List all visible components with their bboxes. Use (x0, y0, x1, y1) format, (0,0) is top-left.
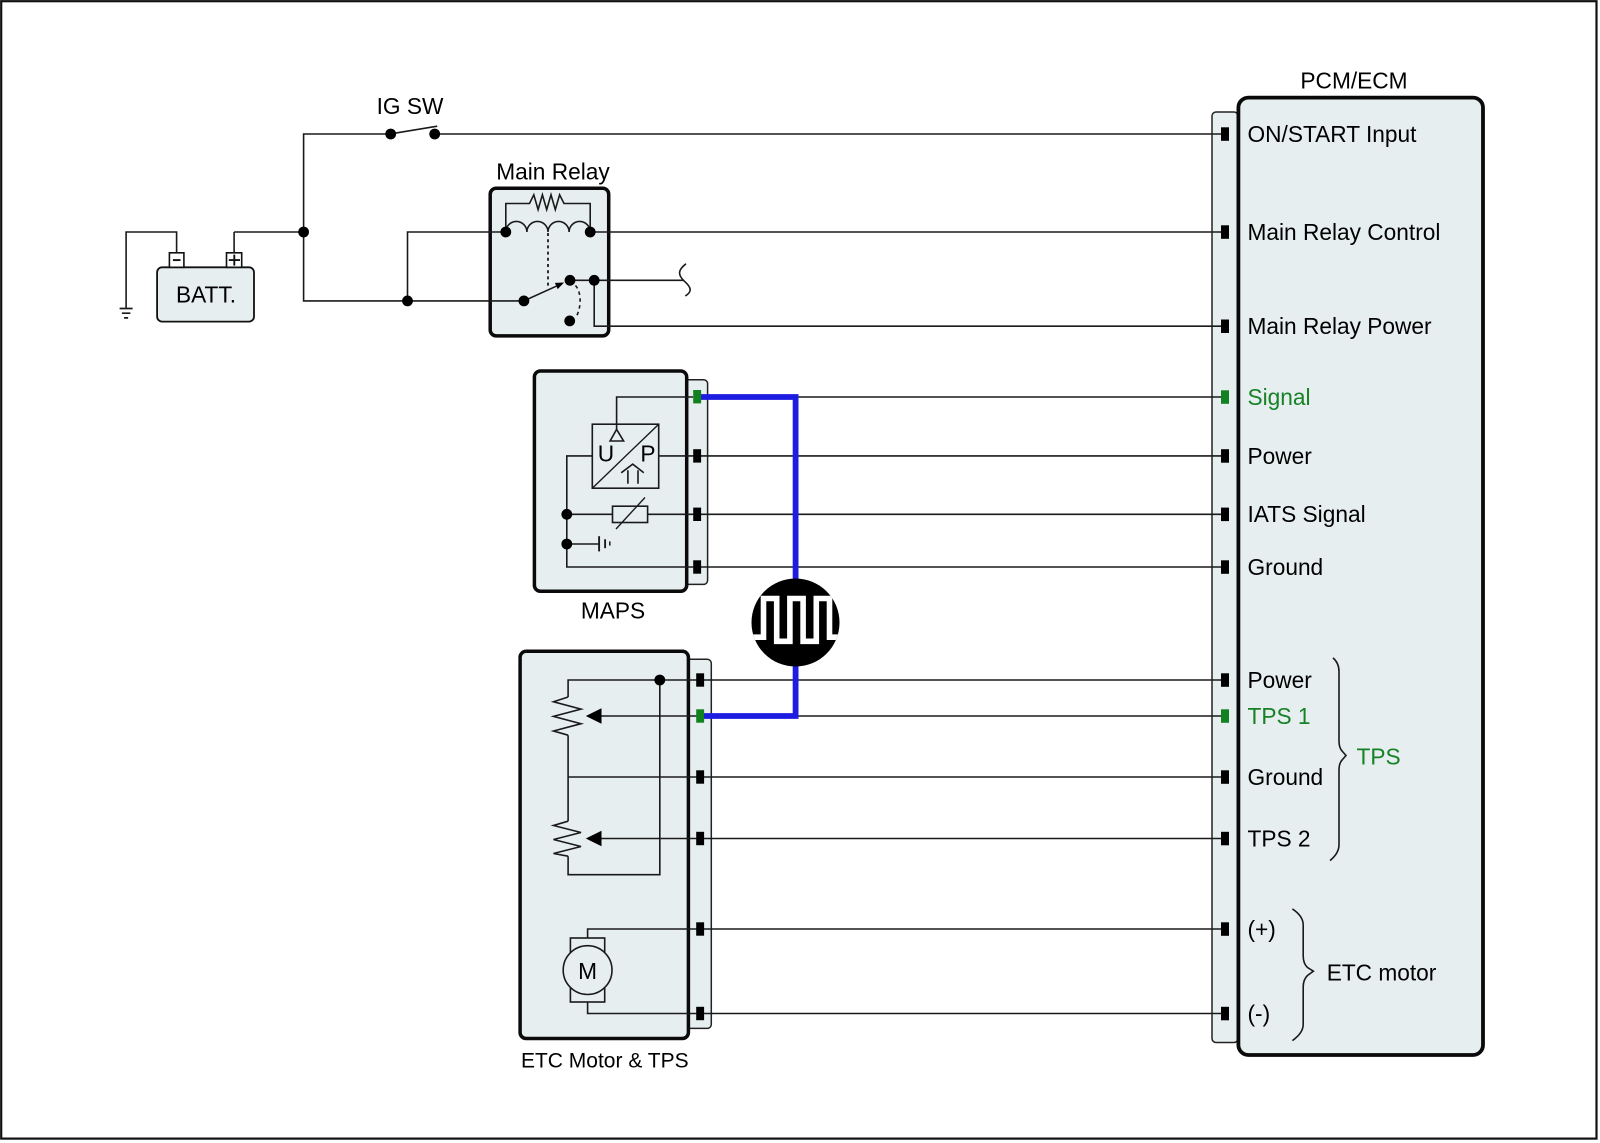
pin MAPS IATS (693, 508, 701, 521)
svg-text:Power: Power (1248, 667, 1313, 693)
MAPS signal internal wire (617, 397, 694, 429)
svg-text:PCM/ECM: PCM/ECM (1300, 67, 1407, 93)
svg-text:(+): (+) (1248, 916, 1276, 942)
svg-text:(-): (-) (1248, 1000, 1271, 1026)
pin PCM motor plus (1221, 922, 1229, 936)
pin MAPS Ground (693, 560, 701, 573)
ETC Motor & TPS box (520, 651, 688, 1038)
wire junction to battery positive (234, 232, 304, 253)
battery BATT. body (157, 267, 254, 321)
TPS resistor 2 (554, 821, 582, 856)
pin PCM Power 2 (1221, 673, 1229, 687)
wire relay coil to PCM Main Relay Control (590, 231, 1221, 233)
PCM/ECM box U1 (1238, 98, 1483, 1055)
node relay NC contact (564, 316, 575, 327)
MAPS U/P transducer (592, 424, 658, 488)
pin MAPS Signal (693, 390, 701, 403)
node ETC power junction (654, 675, 665, 686)
battery negative terminal (169, 253, 184, 267)
svg-text:IATS Signal: IATS Signal (1248, 501, 1366, 527)
pin PCM Power (1221, 449, 1229, 463)
TPS mid rail (568, 735, 1221, 821)
TPS resistor 1 (554, 697, 582, 735)
wire thermistor to PCM IATS Signal (648, 513, 1221, 515)
svg-text:Main Relay Power: Main Relay Power (1248, 313, 1433, 339)
node MAPS thermistor tap (561, 509, 572, 520)
MAPS capacitor (567, 543, 599, 545)
motor M (563, 946, 612, 995)
node IG SW left (385, 129, 396, 140)
node relay coil left (500, 227, 511, 238)
relay dashed throw arc (576, 286, 581, 317)
pin PCM ON/START (1221, 127, 1229, 141)
svg-text:TPS 1: TPS 1 (1248, 703, 1311, 729)
wire IG SW to PCM ON/START (435, 133, 1221, 135)
Main Relay box K1 (490, 188, 609, 336)
pin MAPS Power (693, 449, 701, 462)
TPS wiper arrow 1 (601, 715, 1221, 717)
ground symbol (120, 309, 133, 318)
pin ETC motor minus (696, 1007, 704, 1020)
relay switch blade (524, 286, 556, 301)
svg-text:P: P (640, 440, 655, 466)
wire branch up to relay coil (408, 232, 506, 301)
svg-text:IG SW: IG SW (377, 93, 444, 119)
wire junction down to relay common (304, 232, 524, 301)
MAPS connector strip (680, 380, 708, 585)
svg-text:U: U (598, 440, 614, 466)
pin PCM Ground 2 (1221, 770, 1229, 784)
pin PCM IATS Signal (1221, 508, 1229, 521)
motor M brushes (570, 938, 604, 1002)
svg-text:M: M (578, 958, 597, 984)
pin PCM TPS 1 (1221, 709, 1229, 723)
node MAPS capacitor tap (561, 539, 572, 550)
node IG SW right (429, 129, 440, 140)
ETC connector strip (684, 659, 711, 1028)
TPS resistor 2 return loop (568, 680, 660, 875)
pin PCM Ground (1221, 560, 1229, 574)
svg-text:TPS 2: TPS 2 (1248, 825, 1311, 851)
node relay branch junction (402, 296, 413, 307)
svg-text:ETC Motor & TPS: ETC Motor & TPS (521, 1050, 689, 1073)
svg-text:Main Relay: Main Relay (496, 159, 610, 185)
wire relay NO contact stub (570, 279, 684, 281)
pin PCM TPS 2 (1221, 832, 1229, 846)
relay resistor (506, 195, 590, 232)
battery positive terminal (227, 253, 242, 267)
pin ETC TPS 2 (696, 832, 704, 845)
blue wire Signal to TPS 1 (701, 397, 796, 716)
node relay coil right (585, 227, 596, 238)
pin ETC Ground (696, 770, 704, 783)
svg-text:Ground: Ground (1248, 764, 1324, 790)
brace TPS (1330, 658, 1346, 861)
svg-text:Main Relay Control: Main Relay Control (1248, 219, 1441, 245)
splice icon black circle (752, 579, 840, 667)
pin PCM motor minus (1221, 1007, 1229, 1021)
wire battery negative to ground (126, 232, 177, 309)
TPS wiper arrow 2 (601, 838, 1221, 840)
node battery junction (298, 227, 309, 238)
pin PCM Signal (1221, 390, 1229, 404)
pin PCM Main Relay Control (1221, 225, 1229, 239)
node relay NO contact (565, 275, 576, 286)
node relay common (519, 296, 530, 307)
svg-text:Signal: Signal (1248, 384, 1311, 410)
wire MAPS power rail (567, 456, 1221, 567)
wire MAPS Power to PCM Power (659, 455, 1221, 457)
brace ETC motor (1292, 909, 1313, 1041)
svg-text:BATT.: BATT. (176, 281, 236, 307)
wire break squiggle (680, 264, 691, 296)
PCM connector strip (1212, 112, 1238, 1043)
svg-text:Ground: Ground (1248, 554, 1324, 580)
svg-text:ON/START Input: ON/START Input (1248, 121, 1418, 147)
pin PCM Main Relay Power (1221, 320, 1229, 334)
svg-text:ETC motor: ETC motor (1327, 959, 1437, 985)
svg-text:MAPS: MAPS (581, 597, 645, 623)
svg-text:Power: Power (1248, 443, 1313, 469)
node relay output (589, 275, 600, 286)
wire ETC power rail (568, 680, 1221, 697)
pin ETC Power (696, 673, 704, 686)
motor M leads (588, 929, 1221, 1014)
MAPS sensor box (534, 371, 686, 591)
wire MAPS Signal to PCM Signal (701, 396, 1221, 398)
svg-text:TPS: TPS (1357, 743, 1401, 769)
relay plunger dashed link (547, 233, 549, 287)
wire IG switch feed from junction (304, 134, 391, 232)
wire relay to PCM Main Relay Power (594, 280, 1221, 326)
switch IG SW blade (391, 126, 437, 134)
pin ETC TPS 1 (696, 709, 704, 722)
MAPS thermistor IATS (567, 513, 613, 515)
relay coil (506, 221, 590, 232)
pin ETC motor plus (696, 922, 704, 935)
